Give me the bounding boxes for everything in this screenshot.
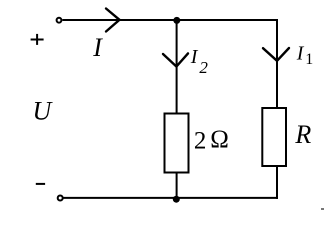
wire: right branch vertical (top corner down to resistor R)	[276, 19, 278, 108]
svg-text:I: I	[296, 42, 305, 64]
label I1	[296, 42, 314, 68]
current arrow I1	[263, 48, 289, 61]
wire: resistor R bottom lead	[276, 166, 278, 199]
label I2	[190, 46, 209, 77]
svg-text:I: I	[190, 46, 199, 68]
wire: bottom horizontal return	[63, 197, 278, 199]
wire: middle branch vertical (junction to 2-ohm resistor)	[176, 20, 178, 113]
stray mark bottom-right	[321, 208, 324, 210]
node: junction dot bottom	[173, 196, 180, 203]
terminal circle (positive, top-left)	[57, 18, 62, 23]
wire: top horizontal from + terminal to top-right corner	[62, 19, 278, 21]
node: junction dot top	[173, 17, 180, 24]
terminal circle (negative, bottom-left)	[58, 196, 63, 201]
svg-text:1: 1	[305, 51, 313, 68]
resistor 2-ohm (rectangle)	[165, 114, 189, 173]
svg-text:2: 2	[199, 58, 208, 77]
label - (minus)	[36, 183, 45, 185]
current arrow I2	[163, 53, 188, 66]
svg-text:R: R	[294, 120, 311, 149]
current arrow I on top wire	[106, 9, 120, 32]
svg-text:I: I	[92, 33, 103, 62]
resistor R (rectangle)	[262, 108, 286, 166]
svg-text:U: U	[33, 96, 54, 125]
svg-text:Ω: Ω	[210, 126, 229, 153]
wire: 2-ohm resistor bottom lead	[176, 173, 178, 199]
label +	[31, 34, 44, 45]
svg-text:2: 2	[194, 127, 207, 154]
